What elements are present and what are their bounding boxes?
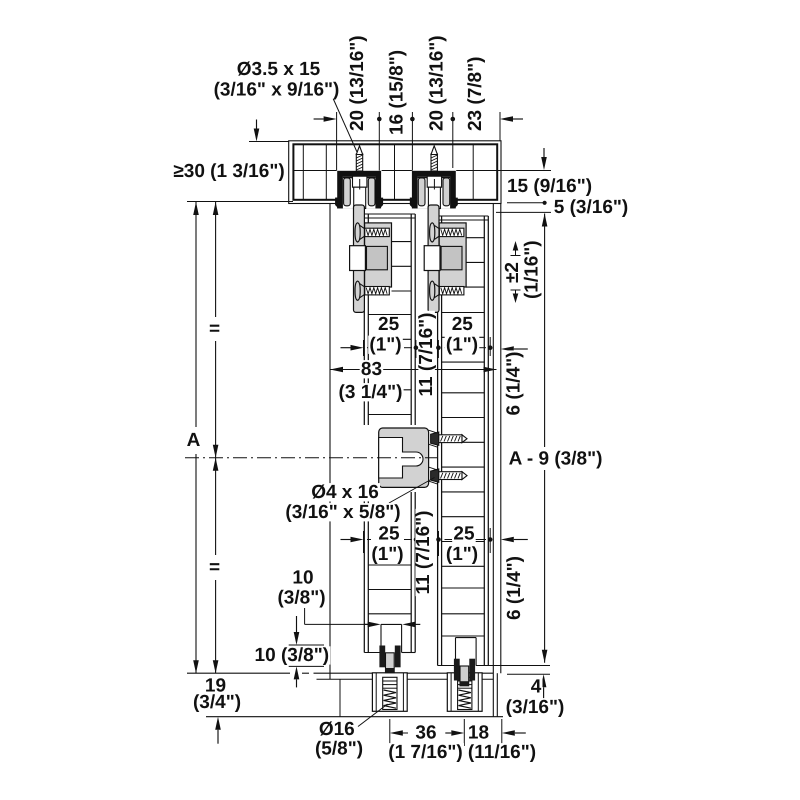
svg-text:83: 83: [361, 359, 382, 380]
svg-text:6 (1/4"): 6 (1/4"): [504, 352, 525, 416]
svg-text:(1"): (1"): [446, 335, 478, 356]
svg-text:11 (7/16"): 11 (7/16"): [413, 510, 434, 594]
svg-text:Ø16: Ø16: [319, 719, 355, 740]
svg-text:(1"): (1"): [369, 335, 401, 356]
svg-text:10: 10: [292, 568, 313, 589]
svg-text:11 (7/16"): 11 (7/16"): [416, 312, 437, 396]
svg-text:A - 9 (3/8"): A - 9 (3/8"): [509, 449, 603, 470]
svg-text:16 (15/8"): 16 (15/8"): [387, 50, 408, 135]
svg-text:(1"): (1"): [446, 544, 478, 565]
svg-text:(3 1/4"): (3 1/4"): [339, 382, 403, 403]
svg-text:25: 25: [378, 524, 400, 545]
svg-text:(3/16" x 5/8"): (3/16" x 5/8"): [285, 502, 400, 523]
svg-text:20 (13/16"): 20 (13/16"): [427, 35, 448, 131]
svg-text:Ø3.5 x 15: Ø3.5 x 15: [237, 59, 321, 80]
svg-text:±2: ±2: [502, 262, 523, 283]
svg-text:6 (1/4"): 6 (1/4"): [504, 556, 525, 620]
svg-text:25: 25: [453, 524, 475, 545]
svg-text:=: =: [209, 557, 220, 578]
svg-text:≥30 (1 3/16"): ≥30 (1 3/16"): [173, 161, 284, 182]
svg-text:15 (9/16"): 15 (9/16"): [507, 176, 592, 197]
svg-text:(3/8"): (3/8"): [277, 588, 325, 609]
svg-text:5 (3/16"): 5 (3/16"): [554, 197, 629, 218]
svg-text:(3/16"): (3/16"): [506, 697, 565, 718]
svg-text:(5/8"): (5/8"): [315, 739, 363, 760]
svg-text:18: 18: [468, 723, 489, 744]
svg-text:36: 36: [415, 723, 436, 744]
svg-text:(1"): (1"): [371, 544, 403, 565]
svg-text:Ø4 x 16: Ø4 x 16: [311, 482, 379, 503]
svg-text:(3/4"): (3/4"): [193, 692, 241, 713]
svg-text:25: 25: [378, 314, 400, 335]
svg-text:4: 4: [531, 677, 542, 698]
svg-text:(3/16" x 9/16"): (3/16" x 9/16"): [214, 80, 340, 101]
svg-text:10 (3/8"): 10 (3/8"): [255, 645, 330, 666]
svg-text:20 (13/16"): 20 (13/16"): [347, 35, 368, 131]
svg-text:=: =: [209, 319, 220, 340]
svg-text:A: A: [187, 430, 201, 451]
svg-text:(11/16"): (11/16"): [468, 742, 536, 763]
svg-text:25: 25: [452, 314, 474, 335]
svg-text:(1/16"): (1/16"): [522, 240, 543, 299]
svg-text:23 (7/8"): 23 (7/8"): [465, 57, 486, 132]
svg-text:(1 7/16"): (1 7/16"): [388, 742, 463, 763]
